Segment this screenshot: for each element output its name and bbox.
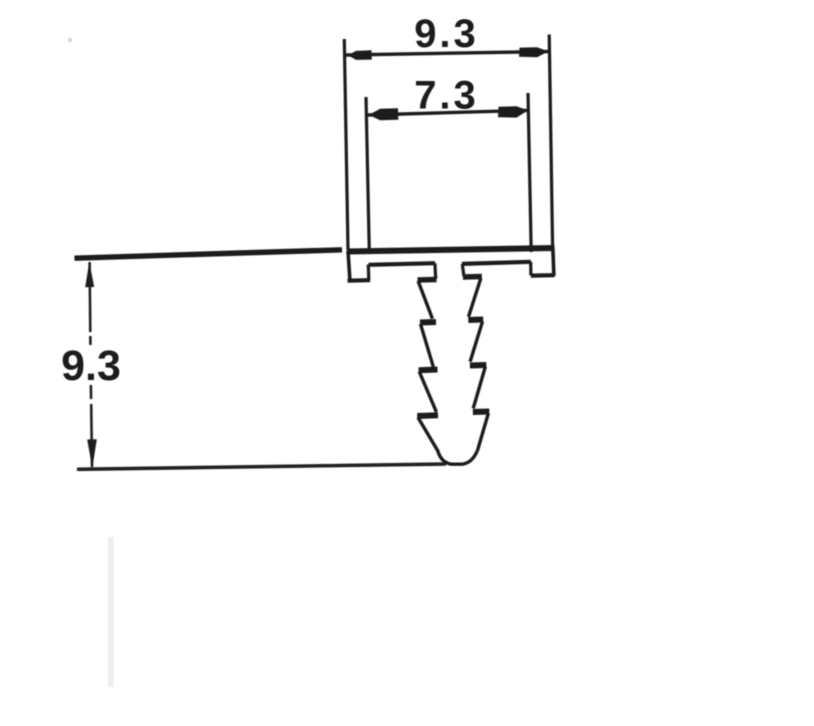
arrowhead right (9.3 top)	[519, 47, 549, 57]
arrowhead left (7.3)	[369, 108, 398, 120]
faint scan smudge lower-left	[108, 537, 114, 687]
barb taper 1 right	[469, 278, 481, 317]
svg-text:9.3: 9.3	[414, 12, 479, 56]
extension line right (9.3 top)	[549, 35, 552, 248]
right leg outer edge	[553, 249, 554, 276]
barb taper 1 left	[418, 281, 432, 319]
panel surface line (left long horizontal)	[75, 250, 343, 258]
rounded tip	[437, 450, 477, 465]
dimension line 7.3	[368, 110, 529, 115]
right leg bottom	[531, 273, 555, 278]
faint speckle top-left	[68, 38, 72, 42]
barb shoulder 2 left	[420, 319, 436, 326]
barb shoulder 2 right	[468, 317, 483, 324]
barb taper 3 left	[419, 372, 436, 413]
arrowhead up (vertical 9.3)	[85, 262, 94, 288]
arrowhead left (9.3 top)	[348, 50, 372, 60]
barb shoulder 1 right	[463, 274, 482, 280]
arrowhead down (vertical 9.3)	[87, 439, 97, 468]
svg-text:9.3: 9.3	[61, 342, 121, 390]
underside flange line right	[462, 262, 531, 264]
arrowhead right (7.3)	[498, 106, 528, 117]
barb taper 4 left	[418, 418, 438, 451]
underside flange line left	[369, 263, 436, 265]
right leg inner edge	[529, 262, 532, 276]
left leg outer edge	[348, 251, 350, 280]
stem neck right edge	[462, 264, 464, 276]
barb taper 3 right	[473, 367, 485, 409]
barb shoulder 3 right	[470, 362, 486, 369]
bottom reference line	[77, 464, 446, 469]
left leg inner edge	[367, 265, 371, 281]
barb taper 2 left	[421, 324, 434, 367]
vertical dimension line 9.3 (segments broken by label)	[88, 262, 91, 332]
extension line right (7.3)	[528, 93, 531, 252]
dimension line 9.3 top	[346, 52, 550, 56]
barb taper 4 right	[478, 414, 489, 451]
barb taper 2 right	[470, 322, 482, 362]
barb shoulder 4 left	[417, 412, 438, 419]
barb shoulder 4 right	[473, 409, 489, 416]
profile top flange line	[347, 248, 555, 252]
barb shoulder 1 left	[418, 277, 437, 283]
barb shoulder 3 left	[419, 367, 438, 374]
extension line left (9.3 top)	[344, 39, 348, 250]
stem neck left edge	[433, 263, 437, 279]
left leg bottom	[348, 278, 371, 283]
extension line left (7.3)	[366, 97, 369, 252]
